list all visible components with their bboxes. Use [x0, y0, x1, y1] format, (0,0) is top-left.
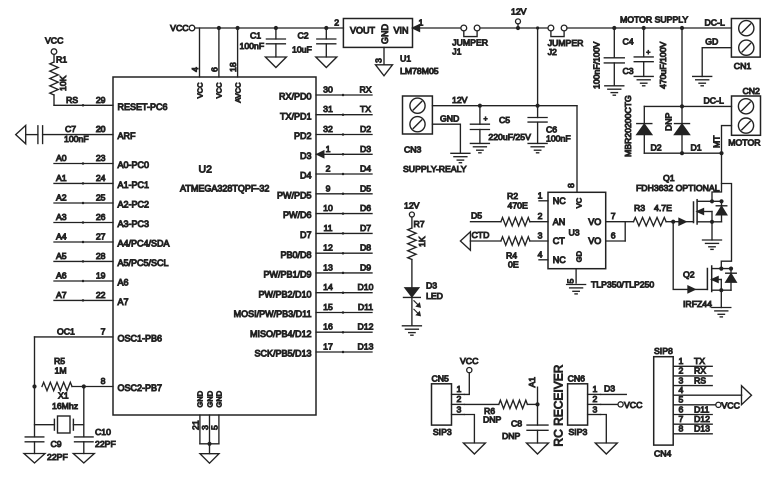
- svg-text:SIP8: SIP8: [654, 346, 673, 356]
- svg-text:A2: A2: [56, 193, 67, 203]
- svg-text:VC: VC: [575, 197, 584, 208]
- svg-text:PW/PB1/D9: PW/PB1/D9: [263, 270, 311, 280]
- svg-text:10K: 10K: [58, 75, 68, 91]
- svg-text:RX/PD0: RX/PD0: [279, 92, 312, 102]
- svg-text:4: 4: [190, 67, 200, 72]
- svg-text:21: 21: [190, 420, 200, 430]
- svg-text:R2: R2: [507, 191, 518, 201]
- svg-text:5: 5: [679, 395, 684, 405]
- svg-text:1: 1: [419, 18, 424, 28]
- svg-text:A3: A3: [56, 212, 67, 222]
- svg-text:VCC: VCC: [215, 82, 224, 98]
- svg-text:27: 27: [96, 232, 106, 242]
- svg-text:TX: TX: [360, 104, 371, 114]
- svg-text:LED: LED: [426, 291, 443, 301]
- svg-text:VCC: VCC: [170, 23, 188, 33]
- svg-text:16: 16: [323, 322, 333, 332]
- svg-text:2: 2: [326, 164, 331, 174]
- svg-text:X1: X1: [58, 391, 69, 401]
- svg-text:A1-PC1: A1-PC1: [118, 180, 150, 190]
- svg-text:4: 4: [679, 385, 684, 395]
- svg-text:0E: 0E: [508, 260, 519, 270]
- svg-text:IRFZ44: IRFZ44: [683, 299, 712, 309]
- svg-text:CN3: CN3: [404, 145, 422, 155]
- svg-text:AVCC: AVCC: [233, 82, 242, 103]
- svg-text:GND: GND: [205, 390, 214, 407]
- svg-text:TLP350/TLP250: TLP350/TLP250: [591, 280, 654, 290]
- svg-text:8: 8: [679, 424, 684, 434]
- svg-text:1K: 1K: [417, 236, 427, 247]
- svg-text:4: 4: [538, 249, 543, 259]
- svg-text:TX: TX: [694, 356, 705, 366]
- svg-text:1: 1: [326, 144, 331, 154]
- svg-text:PB0/D8: PB0/D8: [280, 250, 311, 260]
- svg-text:470E: 470E: [508, 201, 528, 211]
- svg-text:A7: A7: [118, 297, 129, 307]
- svg-text:GD: GD: [575, 250, 584, 262]
- svg-text:D10: D10: [358, 282, 374, 292]
- svg-text:D2: D2: [651, 142, 662, 152]
- svg-text:GND: GND: [380, 24, 390, 45]
- svg-text:DNP: DNP: [502, 431, 521, 441]
- svg-text:+: +: [484, 116, 488, 123]
- svg-text:J2: J2: [548, 47, 557, 57]
- svg-text:7: 7: [101, 326, 106, 336]
- svg-text:C1: C1: [250, 31, 261, 41]
- svg-text:3: 3: [374, 58, 384, 63]
- svg-text:RX: RX: [359, 85, 371, 95]
- svg-text:+: +: [646, 49, 650, 56]
- svg-text:D12: D12: [694, 414, 710, 424]
- svg-text:R7: R7: [414, 219, 425, 229]
- svg-text:ATMEGA328TQPF-32: ATMEGA328TQPF-32: [180, 184, 269, 194]
- svg-text:D3: D3: [300, 151, 312, 161]
- svg-text:GND: GND: [196, 390, 205, 407]
- svg-text:5: 5: [209, 425, 219, 430]
- svg-text:A4: A4: [56, 232, 67, 242]
- svg-text:NC: NC: [553, 196, 566, 206]
- svg-text:3: 3: [679, 375, 684, 385]
- svg-text:CN6: CN6: [568, 374, 586, 384]
- svg-text:VIN: VIN: [394, 26, 409, 36]
- svg-text:13: 13: [323, 262, 333, 272]
- svg-text:8: 8: [566, 183, 576, 188]
- svg-text:R1: R1: [56, 55, 67, 65]
- svg-text:23: 23: [96, 153, 106, 163]
- svg-text:16Mhz: 16Mhz: [52, 401, 78, 411]
- svg-text:1: 1: [457, 384, 462, 394]
- svg-text:18: 18: [228, 62, 238, 72]
- svg-text:A7: A7: [56, 290, 67, 300]
- svg-text:D6: D6: [360, 203, 371, 213]
- svg-text:470uF/100V: 470uF/100V: [658, 41, 668, 89]
- svg-text:CN4: CN4: [654, 449, 672, 459]
- svg-text:DNP: DNP: [663, 112, 673, 131]
- svg-text:GND: GND: [440, 113, 459, 123]
- svg-text:A6: A6: [118, 278, 129, 288]
- svg-text:SIP3: SIP3: [433, 427, 452, 437]
- svg-text:1: 1: [538, 190, 543, 200]
- svg-text:25: 25: [96, 193, 106, 203]
- svg-text:26: 26: [96, 212, 106, 222]
- svg-text:D3: D3: [604, 384, 615, 394]
- svg-text:2: 2: [457, 394, 462, 404]
- svg-text:DNP: DNP: [483, 414, 502, 424]
- svg-text:D5: D5: [360, 183, 371, 193]
- svg-text:2: 2: [538, 211, 543, 221]
- svg-text:9: 9: [326, 183, 331, 193]
- svg-text:28: 28: [96, 251, 106, 261]
- svg-text:24: 24: [96, 173, 106, 183]
- svg-text:U1: U1: [400, 54, 411, 64]
- svg-text:OC1: OC1: [57, 326, 75, 336]
- svg-text:OSC2-PB7: OSC2-PB7: [118, 383, 163, 393]
- svg-text:D3: D3: [360, 144, 371, 154]
- svg-text:D7: D7: [300, 230, 312, 240]
- svg-text:12V: 12V: [452, 95, 468, 105]
- svg-text:RS: RS: [694, 375, 706, 385]
- svg-text:RX: RX: [694, 366, 706, 376]
- svg-text:VCC: VCC: [195, 82, 204, 98]
- svg-text:2: 2: [679, 366, 684, 376]
- svg-text:1M: 1M: [55, 366, 67, 376]
- svg-text:Q1: Q1: [663, 173, 675, 183]
- svg-text:VOUT: VOUT: [350, 26, 376, 36]
- svg-text:7: 7: [679, 414, 684, 424]
- svg-text:MOTOR: MOTOR: [728, 138, 760, 148]
- svg-text:SUPPLY-REALY: SUPPLY-REALY: [403, 164, 467, 174]
- svg-text:VCC: VCC: [722, 400, 740, 410]
- svg-text:C8: C8: [511, 419, 522, 429]
- svg-text:14: 14: [323, 282, 333, 292]
- svg-text:12: 12: [323, 243, 333, 253]
- svg-text:30: 30: [323, 85, 333, 95]
- svg-text:17: 17: [323, 342, 333, 352]
- svg-text:C3: C3: [623, 66, 634, 76]
- svg-text:MOSI/PW/PB3/D11: MOSI/PW/PB3/D11: [234, 309, 312, 319]
- svg-text:VCC: VCC: [45, 35, 63, 45]
- svg-text:A0-PC0: A0-PC0: [118, 160, 150, 170]
- svg-text:FDH3632 OPTIONAL: FDH3632 OPTIONAL: [636, 183, 720, 193]
- svg-text:7: 7: [611, 211, 616, 221]
- svg-text:10uF: 10uF: [292, 45, 312, 55]
- svg-text:22PF: 22PF: [47, 452, 68, 462]
- svg-text:D4: D4: [300, 171, 312, 181]
- svg-text:31: 31: [323, 104, 333, 114]
- svg-text:AN: AN: [553, 217, 566, 227]
- svg-text:4.7E: 4.7E: [654, 203, 672, 213]
- svg-text:U3: U3: [569, 228, 580, 238]
- svg-text:A6: A6: [56, 271, 67, 281]
- svg-text:MISO/PB4/D12: MISO/PB4/D12: [250, 329, 312, 339]
- svg-text:NC: NC: [553, 255, 566, 265]
- svg-text:CN1: CN1: [734, 61, 752, 71]
- svg-text:OSC1-PB6: OSC1-PB6: [118, 334, 163, 344]
- svg-text:D4: D4: [360, 164, 371, 174]
- svg-text:D11: D11: [694, 404, 709, 414]
- svg-text:D8: D8: [360, 243, 371, 253]
- svg-text:VO: VO: [588, 217, 601, 227]
- svg-text:D13: D13: [358, 342, 374, 352]
- svg-text:R5: R5: [54, 356, 65, 366]
- svg-text:C5: C5: [499, 115, 510, 125]
- svg-text:MOTOR SUPPLY: MOTOR SUPPLY: [620, 15, 688, 25]
- svg-text:TX/PD1: TX/PD1: [280, 111, 312, 121]
- svg-text:RC RECEIVER: RC RECEIVER: [552, 364, 566, 446]
- svg-text:CN2: CN2: [743, 86, 761, 96]
- svg-text:C2: C2: [298, 31, 309, 41]
- svg-text:100nF/100V: 100nF/100V: [591, 41, 601, 89]
- svg-text:RESET-PC6: RESET-PC6: [118, 102, 168, 112]
- svg-text:8: 8: [101, 376, 106, 386]
- svg-text:1: 1: [593, 384, 598, 394]
- svg-text:A5/PC5/SCL: A5/PC5/SCL: [118, 258, 169, 268]
- svg-text:100nF: 100nF: [64, 134, 89, 144]
- svg-text:D9: D9: [360, 262, 371, 272]
- svg-text:J1: J1: [452, 47, 461, 57]
- svg-text:100nF: 100nF: [240, 41, 265, 51]
- svg-text:D3: D3: [426, 280, 437, 290]
- svg-text:11: 11: [323, 223, 332, 233]
- svg-text:C4: C4: [623, 37, 634, 47]
- svg-text:A5: A5: [56, 251, 67, 261]
- svg-text:DC-L: DC-L: [704, 95, 724, 105]
- svg-text:SIP3: SIP3: [569, 427, 588, 437]
- svg-text:A2-PC2: A2-PC2: [118, 200, 150, 210]
- svg-text:22PF: 22PF: [95, 439, 116, 449]
- svg-text:32: 32: [323, 124, 333, 134]
- svg-text:2: 2: [334, 17, 339, 27]
- svg-text:U2: U2: [199, 164, 213, 176]
- svg-text:1: 1: [679, 356, 684, 366]
- svg-text:VCC: VCC: [624, 400, 642, 410]
- svg-text:RS: RS: [66, 95, 78, 105]
- svg-text:SCK/PB5/D13: SCK/PB5/D13: [254, 349, 311, 359]
- svg-text:A0: A0: [56, 153, 67, 163]
- svg-text:A1: A1: [56, 173, 67, 183]
- svg-text:220uF/25V: 220uF/25V: [488, 132, 531, 142]
- svg-text:20: 20: [96, 124, 106, 134]
- svg-text:D1: D1: [691, 142, 702, 152]
- svg-text:12V: 12V: [404, 201, 420, 211]
- svg-text:5: 5: [566, 279, 576, 284]
- svg-text:CN5: CN5: [432, 374, 450, 384]
- svg-text:100nF: 100nF: [546, 134, 571, 144]
- svg-text:R3: R3: [634, 203, 645, 213]
- svg-text:PD2: PD2: [294, 131, 312, 141]
- svg-text:3: 3: [538, 231, 543, 241]
- svg-text:GD: GD: [705, 36, 718, 46]
- svg-text:ARF: ARF: [118, 131, 137, 141]
- svg-text:22: 22: [96, 290, 106, 300]
- svg-text:D12: D12: [358, 322, 374, 332]
- svg-text:MT: MT: [712, 135, 722, 148]
- svg-text:A3-PC3: A3-PC3: [118, 219, 150, 229]
- svg-text:LM78M05: LM78M05: [400, 66, 439, 76]
- svg-text:CT: CT: [553, 236, 565, 246]
- svg-text:PW/PB2/D10: PW/PB2/D10: [258, 289, 311, 299]
- svg-text:A4/PC4/SDA: A4/PC4/SDA: [118, 239, 170, 249]
- svg-text:PW/D6: PW/D6: [283, 210, 312, 220]
- svg-text:GND: GND: [215, 390, 224, 407]
- svg-text:10: 10: [323, 203, 333, 213]
- svg-text:19: 19: [96, 271, 106, 281]
- svg-text:D2: D2: [360, 124, 371, 134]
- svg-text:6: 6: [611, 230, 616, 240]
- svg-text:D5: D5: [471, 211, 482, 221]
- svg-text:MBR20200CTG: MBR20200CTG: [623, 95, 633, 157]
- svg-text:VO: VO: [588, 236, 601, 246]
- svg-text:PW/PD5: PW/PD5: [277, 190, 312, 200]
- svg-text:29: 29: [96, 95, 106, 105]
- svg-text:15: 15: [323, 302, 333, 312]
- svg-text:Q2: Q2: [683, 270, 695, 280]
- svg-text:2: 2: [593, 394, 598, 404]
- svg-text:C7: C7: [65, 124, 76, 134]
- svg-text:VCC: VCC: [460, 356, 478, 366]
- svg-text:D7: D7: [360, 223, 371, 233]
- svg-text:3: 3: [593, 404, 598, 414]
- svg-text:3: 3: [457, 404, 462, 414]
- svg-text:6: 6: [679, 404, 684, 414]
- svg-text:6: 6: [209, 67, 219, 72]
- svg-text:DC-L: DC-L: [705, 18, 725, 28]
- svg-text:A1: A1: [527, 377, 537, 388]
- svg-text:D13: D13: [694, 424, 710, 434]
- svg-text:D11: D11: [358, 302, 373, 312]
- svg-text:12V: 12V: [511, 7, 527, 17]
- svg-text:C10: C10: [95, 427, 111, 437]
- svg-text:C9: C9: [51, 439, 62, 449]
- svg-text:CTD: CTD: [472, 230, 490, 240]
